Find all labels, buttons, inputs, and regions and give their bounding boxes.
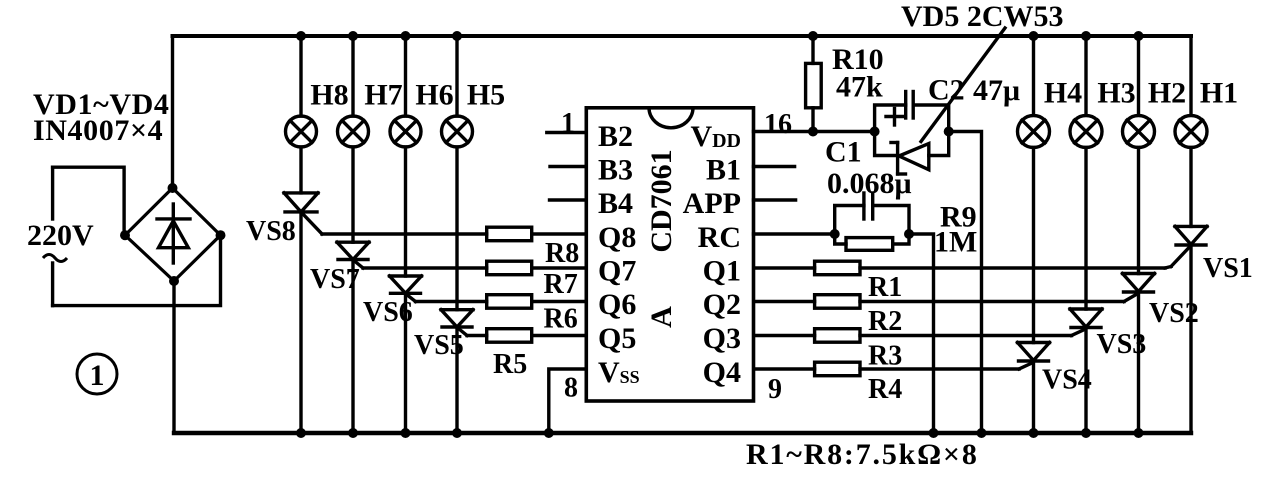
svg-text:VS7: VS7 [310,264,360,295]
svg-text:VS5: VS5 [414,330,464,361]
lamp H7 [338,36,369,147]
label AC tilde [43,255,67,262]
svg-text:IN4007×4: IN4007×4 [33,114,163,147]
wire 220V source lead upper [51,167,54,219]
svg-text:H1: H1 [1200,77,1238,110]
svg-text:VS4: VS4 [1042,365,1092,396]
svg-text:R2: R2 [868,306,902,337]
wire R5 to pin Q5 [532,334,587,337]
node bottom rail junction H5 column [452,428,462,438]
svg-text:47μ: 47μ [973,74,1020,107]
wire 220V loop top [53,167,125,235]
svg-text:R8: R8 [545,238,579,269]
wire pin Q3 to R3 [754,334,815,337]
wire R7 to pin Q7 [532,266,587,269]
wire bridge bottom vertex to bottom rail [172,281,175,433]
node bottom rail junction H3 column [1081,428,1091,438]
IC notch [649,108,693,128]
wire VD5 callout pointer [921,28,1005,142]
node top rail junction H5 [452,31,462,41]
svg-text:A: A [645,306,678,328]
svg-text:Q6: Q6 [598,288,636,321]
node top rail junction H8 [296,31,306,41]
svg-text:H7: H7 [364,79,402,112]
svg-text:0.068μ: 0.068μ [827,167,912,200]
resistor R3 [815,329,860,343]
resistor R8 [487,227,532,241]
svg-text:R7: R7 [544,269,578,300]
diode inside bridge [157,204,190,263]
node bridge top vertex [168,183,178,193]
wire R8 to pin Q8 [532,232,587,235]
svg-text:VS8: VS8 [246,216,296,247]
wire VS6 gate to R6 [416,300,487,303]
svg-text:47k: 47k [836,71,883,104]
svg-text:C1: C1 [825,136,862,169]
resistor R6 [487,295,532,309]
wire pin Q2 to R2 [754,300,815,303]
svg-text:B3: B3 [598,154,633,187]
thyristor VS7 [337,147,369,433]
wire VS5 gate to R5 [467,334,487,337]
svg-text:H2: H2 [1148,77,1186,110]
svg-text:H8: H8 [310,79,348,112]
node top rail junction H3 [1081,31,1091,41]
lamp H6 [390,36,421,147]
thyristor VS5 [441,147,473,433]
wire left drop from top rail to bridge top vertex [171,36,174,188]
node RC network left [830,229,840,239]
wire top rail [173,34,1192,38]
wire R3 to VS3 gate [860,334,1072,337]
svg-text:H4: H4 [1044,77,1082,110]
wire VS7 gate to R7 [363,266,487,269]
svg-text:16: 16 [764,109,792,140]
resistor R9 [835,234,909,250]
thyristor VS4 [1018,148,1050,434]
node bottom rail junction H8 column [296,428,306,438]
lamp H5 [442,36,473,147]
resistor R7 [487,261,532,275]
svg-text:1: 1 [90,359,105,392]
svg-text:H6: H6 [415,79,453,112]
svg-text:1: 1 [561,108,575,139]
wire pin B3 stub [550,165,586,168]
resistor R10 [806,36,822,132]
svg-text:H5: H5 [467,79,505,112]
wire R6 to pin Q6 [532,300,587,303]
node top rail junction R10 [808,31,818,41]
resistor R5 [487,329,532,343]
svg-text:Q4: Q4 [703,356,741,389]
lamp H4 [1018,36,1050,148]
resistor R2 [815,295,860,309]
svg-text:VS3: VS3 [1097,329,1147,360]
svg-text:R6: R6 [544,304,578,335]
lamp H3 [1070,36,1102,148]
node top rail junction H6 [401,31,411,41]
svg-text:C2: C2 [928,74,965,107]
svg-text:Q7: Q7 [598,255,636,288]
node zener network right [944,127,954,137]
thyristor VS1 [1171,148,1207,434]
wire R4 to VS4 gate [860,367,1019,370]
wire RC node to bottom rail [909,234,934,433]
wire 220V loop bottom [53,235,221,305]
svg-text:R5: R5 [493,349,527,380]
bridge rectifier VD1-VD4 diamond [125,188,221,281]
wire R2 to VS2 gate [860,300,1124,303]
node bottom rail junction H2 column [1134,428,1144,438]
node bottom rail junction H7 column [348,428,358,438]
svg-text:CD7061: CD7061 [645,149,678,252]
svg-text:VS6: VS6 [363,297,413,328]
svg-text:B2: B2 [598,120,633,153]
svg-text:R1: R1 [868,272,902,303]
wire pin 8 Vss to bottom rail [549,369,587,433]
lamp H1 [1175,36,1207,148]
svg-text:Q3: Q3 [703,322,741,355]
svg-text:Q5: Q5 [598,322,636,355]
node bottom rail junction RC branch [929,428,939,438]
node RC network right [904,229,914,239]
lamp H2 [1123,36,1155,148]
thyristor VS2 [1123,148,1155,434]
svg-text:Q2: Q2 [703,288,741,321]
zener diode VD5 [875,132,949,175]
wire pin Q4 to R4 [754,367,815,370]
node bridge right vertex [216,230,226,240]
node bottom rail junction Vss [544,428,554,438]
svg-text:Q1: Q1 [703,255,741,288]
wire pin B4 stub [550,198,587,201]
svg-text:H3: H3 [1097,77,1135,110]
lamp H8 [286,36,317,147]
wire pin B1 stub [754,165,795,168]
wire pin Q1 to R1 [754,266,815,269]
node bridge left vertex [120,230,130,240]
capacitor C1 [835,193,909,234]
op-amp U1 IC CD7061 body [586,108,753,401]
wire R1 to VS1 gate [860,266,1165,269]
resistor R1 [815,261,860,275]
svg-text:B4: B4 [598,187,633,220]
wire pin RC to C1 R9 network [754,232,835,235]
resistor R4 [815,362,860,376]
svg-text:9: 9 [768,374,782,405]
node bottom rail junction H4 column [1029,428,1039,438]
node zener network left [870,127,880,137]
figure number 1 circled [77,354,117,394]
wire VS8 gate to R8 [322,232,487,235]
wire pin 16 VDD to R10 node [754,130,875,133]
svg-text:APP: APP [683,187,741,220]
node bottom rail junction zener branch [977,428,987,438]
wire zener node to bottom rail [949,132,982,434]
wire bottom rail [174,431,1191,435]
thyristor VS6 [390,147,422,433]
svg-text:R4: R4 [868,374,902,405]
svg-text:R3: R3 [868,341,902,372]
node bottom rail junction H6 column [401,428,411,438]
wire Q1 row to VS1 gate [1165,267,1171,269]
capacitor C2 [875,92,949,132]
thyristor VS8 [284,147,322,433]
node bridge bottom vertex [169,276,179,286]
node top rail junction H7 [348,31,358,41]
svg-text:VS2: VS2 [1149,298,1199,329]
thyristor VS3 [1070,148,1102,434]
svg-text:220V: 220V [27,219,94,252]
wire pin APP stub [754,198,796,201]
svg-text:8: 8 [564,373,578,404]
svg-text:B1: B1 [706,154,741,187]
svg-text:VS1: VS1 [1203,253,1253,284]
svg-text:VD5 2CW53: VD5 2CW53 [901,0,1064,33]
wire pin 1 B2 stub [547,131,587,134]
svg-text:1M: 1M [934,226,977,259]
svg-text:RC: RC [698,221,741,254]
node VDD R10 junction [808,127,818,137]
wire 220V source lead lower [51,263,54,306]
node top rail junction H4 [1029,31,1039,41]
svg-text:Q8: Q8 [598,221,636,254]
svg-text:R1~R8:7.5kΩ×8: R1~R8:7.5kΩ×8 [746,438,979,471]
node top rail junction H2 [1134,31,1144,41]
